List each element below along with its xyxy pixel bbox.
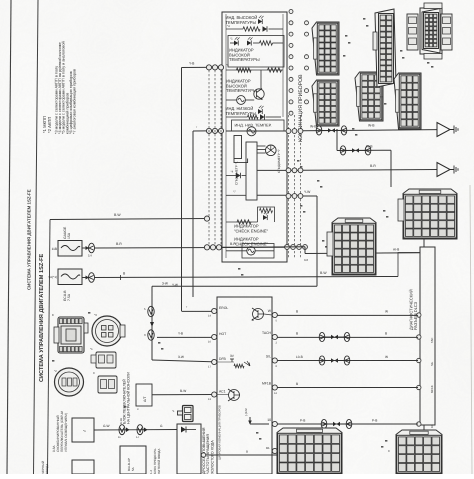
left trunk vertical Y-B xyxy=(181,68,183,312)
wire row1 inside box xyxy=(226,28,243,30)
wire B-W long feed from left trunk xyxy=(50,219,207,220)
meter lower pin rows xyxy=(286,129,291,134)
connector CF xyxy=(394,73,421,129)
transistor Q3 at AC1 xyxy=(228,389,240,401)
wire row3 with two resistors xyxy=(226,69,283,71)
connector illustration CI5 (small) xyxy=(98,376,117,393)
wire B from fuse F2 to diagnostic connector xyxy=(95,277,399,278)
wire down from pin row to DLC wire xyxy=(304,247,306,254)
wire S/L row to DLC3 xyxy=(277,360,418,362)
ECU box (digital combination meter) xyxy=(217,297,272,474)
12V supply stub xyxy=(250,423,269,425)
wire HOT row xyxy=(157,336,212,338)
small connector above idle-up box xyxy=(183,406,194,422)
ECU right pin y451 xyxy=(272,448,277,453)
page outer edge line xyxy=(7,0,11,474)
wire W-B row2 xyxy=(337,149,391,151)
connector CE top tab xyxy=(424,3,442,9)
resistor R2 xyxy=(260,41,273,45)
inner left rail of indicator box xyxy=(225,14,227,258)
resistor R3a xyxy=(237,68,252,72)
diode D5 xyxy=(236,173,241,178)
wire row y131 into box xyxy=(193,130,222,132)
connector C11 xyxy=(277,428,342,474)
transistor Q2 at W output xyxy=(252,308,264,320)
check engine resistor loop box xyxy=(258,207,275,222)
page inner border line xyxy=(34,0,39,474)
ECU left pins xyxy=(212,308,217,313)
wire y288 horizontal xyxy=(152,285,193,287)
bulb-up fuse box xyxy=(120,446,146,474)
LED D3 xyxy=(247,37,253,46)
A/T box xyxy=(136,384,152,406)
wire corner down to DLC3 xyxy=(398,253,420,277)
fuse F1 GAUGE 15A xyxy=(58,241,82,257)
inline connector pair on SW1 wire xyxy=(119,425,125,435)
lamp L3 check engine xyxy=(247,247,255,255)
speedometer main box xyxy=(246,142,257,200)
wire B-W from A/T to AC1 xyxy=(152,394,212,396)
connector 1H on fuse F1 output xyxy=(82,247,88,249)
transistor Q1 xyxy=(254,89,264,99)
switch box SW1 xyxy=(72,418,94,442)
diode D1 xyxy=(263,26,268,31)
wire to DLC3 top xyxy=(305,252,420,255)
connector CE right flange xyxy=(441,14,452,50)
connector C8 xyxy=(403,189,457,239)
connector CA (instrument harness) xyxy=(312,22,339,75)
second switch box SW2 xyxy=(72,460,94,474)
ind niz temper sub-box xyxy=(232,120,285,131)
wire from SW1 to idle-up xyxy=(94,429,177,432)
combination meter indicator box xyxy=(222,12,287,262)
vertical trunk from row4 xyxy=(316,196,318,286)
diode arrow between connectors xyxy=(150,322,154,327)
fuse F2 ECU-B 7.5A xyxy=(58,269,82,285)
LED check engine 1 xyxy=(263,212,269,221)
dashed harness lines top strip xyxy=(288,115,290,258)
wire row y131 through box xyxy=(226,130,287,132)
right page edge shadow xyxy=(470,185,472,474)
wire MF10 row to DLC3 xyxy=(277,387,418,389)
diagnostic connector DLC3 box xyxy=(420,247,435,425)
wire B-R from fuse F1 to instrument pins xyxy=(95,246,288,249)
wire P-B bottom row to DLC3 xyxy=(277,423,418,425)
lamp L2 low temp xyxy=(247,127,256,136)
LED low temp xyxy=(258,106,264,115)
LED high temp 1 xyxy=(258,16,264,24)
DLC3 stub to C12 xyxy=(423,425,425,434)
tachometer narrow box xyxy=(234,136,242,159)
ECU right pins xyxy=(272,312,277,317)
junction pins row y68 xyxy=(206,65,211,70)
connector CE (large top right) xyxy=(420,8,442,54)
wire to EROL pin xyxy=(182,310,212,312)
wire down to connector C8 xyxy=(390,150,392,187)
wire Y-W row4 xyxy=(303,195,317,197)
connector illustration CI1 (switch block) xyxy=(58,317,84,353)
wire B-R row y247 to pins xyxy=(221,246,305,249)
connector illustration CI3 (small 4-pin) xyxy=(96,352,116,368)
junction pins row y248 xyxy=(204,245,209,250)
wire row2 xyxy=(230,42,234,44)
wire W-B row1 to ground G1 xyxy=(303,130,437,131)
wires gauge xyxy=(257,145,266,147)
wire DFB row xyxy=(152,360,212,362)
connector CE bottom tab xyxy=(424,54,442,60)
idle-up valve box xyxy=(177,424,201,474)
connector CC xyxy=(355,72,383,121)
C8 stub to DLC3 xyxy=(423,238,425,247)
connector 1J on fuse F2 output xyxy=(82,277,88,279)
connector CD tall xyxy=(375,9,396,87)
connector C12 xyxy=(396,430,442,474)
connector illustration CI2 (round 4-pin) xyxy=(92,316,122,346)
LED D2 xyxy=(234,37,240,46)
instrument panel pin column B xyxy=(305,21,309,25)
check engine lamp box xyxy=(242,244,274,259)
junction pins row y131 xyxy=(206,128,211,133)
wire Y-B to indicator box top xyxy=(182,66,223,68)
vertical feed with connectors 2E xyxy=(151,286,153,360)
left vertical trunk wire xyxy=(48,220,51,475)
resistor R5 xyxy=(260,208,273,212)
inline connector pair on S/L row xyxy=(319,356,325,365)
speedometer gauge M1 xyxy=(266,145,277,156)
ground G2 xyxy=(437,163,450,177)
resistor R1 xyxy=(243,27,260,31)
diode D6 xyxy=(181,427,186,433)
wire check engine row xyxy=(226,221,258,223)
resistor R3b xyxy=(268,68,282,72)
trunk vertical from row131 xyxy=(192,131,194,297)
inline connector 2E-b xyxy=(148,330,154,340)
inline connector pair on TACH row xyxy=(319,332,325,341)
transistor base feed xyxy=(260,70,262,89)
resistor R4 and diode row xyxy=(248,115,259,119)
inline connector pair IF1 xyxy=(316,126,322,135)
wire row y195 xyxy=(226,194,246,196)
inline connector pair IF2 xyxy=(340,146,346,155)
dashed harness lines left strip xyxy=(208,70,210,246)
wire from idle-up box to C11 xyxy=(201,454,277,456)
connector illustration CI4 (oval) xyxy=(55,368,84,396)
pin number marks near connectors xyxy=(345,35,347,37)
junction pin on feed wire xyxy=(204,216,209,221)
wire TACH row to DLC3 xyxy=(277,336,418,338)
inline connector pair on P-B row xyxy=(321,419,327,428)
connector CE left flange xyxy=(407,14,418,50)
lamp L1 xyxy=(237,96,246,105)
wire B-R row3 to ground G2 xyxy=(303,169,437,172)
junction branch down xyxy=(336,129,338,131)
indicator sub-box 2 xyxy=(228,36,284,68)
wire to right pins y170 xyxy=(257,169,299,171)
instrument panel pin column A xyxy=(289,10,293,14)
ground G1 xyxy=(437,123,450,137)
inline connector 2E-a xyxy=(148,306,154,316)
connector C10 xyxy=(332,218,376,275)
wire W row to DLC3 xyxy=(277,314,418,316)
connector CB xyxy=(312,80,339,126)
DLC3 pins xyxy=(417,313,421,317)
